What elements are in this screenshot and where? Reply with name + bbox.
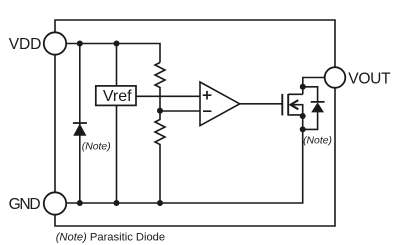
svg-text:VOUT: VOUT xyxy=(348,70,391,87)
svg-text:Vref: Vref xyxy=(103,88,132,105)
svg-text:(Note): (Note) xyxy=(303,136,332,147)
svg-text:(Note) Parasitic Diode: (Note) Parasitic Diode xyxy=(56,231,165,243)
svg-text:VDD: VDD xyxy=(9,36,42,53)
svg-text:(Note): (Note) xyxy=(82,141,111,152)
svg-text:GND: GND xyxy=(9,196,41,213)
